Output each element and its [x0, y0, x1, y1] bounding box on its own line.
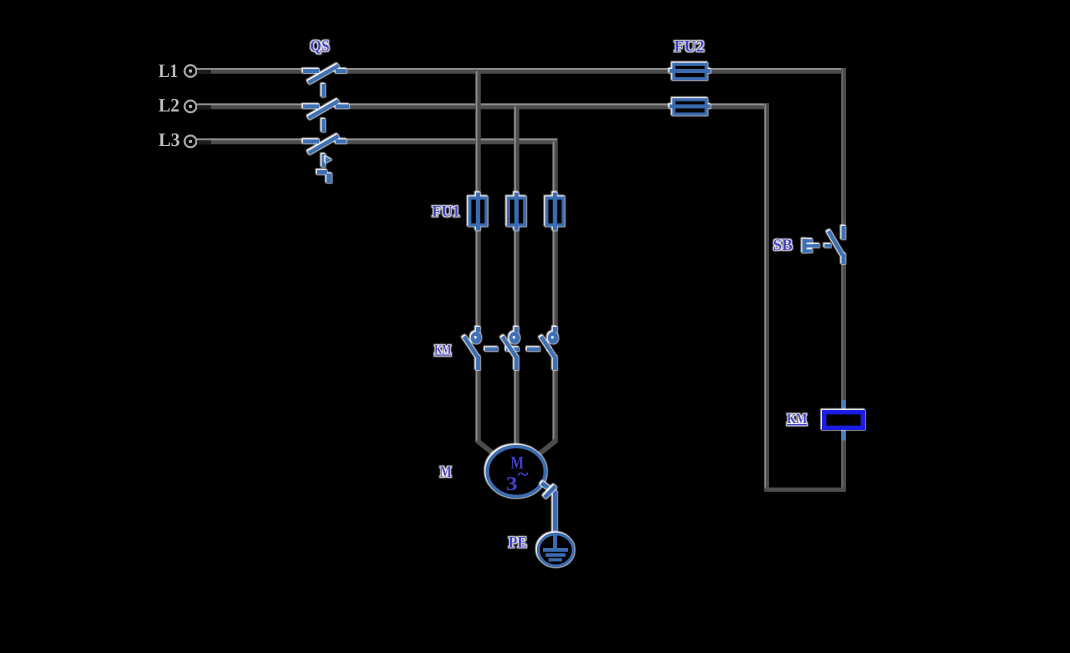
label SB [773, 237, 793, 254]
contactor KM linkage dashed line [485, 347, 551, 351]
motor M circle [487, 447, 545, 497]
wire control right vertical [842, 68, 843, 489]
switch QS pole 1 [303, 66, 347, 83]
svg-text:~: ~ [518, 464, 530, 484]
wire control bottom horizontal [764, 488, 846, 492]
svg-text:L2: L2 [159, 96, 180, 117]
label L1 [159, 61, 179, 82]
svg-text:QS: QS [310, 38, 330, 55]
motor M letter [511, 452, 524, 472]
label L3 [159, 130, 181, 151]
contactor KM contact 1 [464, 327, 482, 370]
svg-text:FU2: FU2 [674, 39, 705, 56]
wire shadow at terminal L3 [197, 140, 211, 144]
contactor KM contact 2 [503, 327, 521, 370]
label QS [310, 38, 330, 55]
wire L2 horizontal [197, 104, 769, 106]
label M [440, 464, 452, 481]
wire phase U vertical [477, 71, 502, 461]
ground PE symbol [538, 533, 573, 566]
label KM main contacts [435, 342, 452, 357]
switch QS linkage dashed line [322, 84, 326, 172]
svg-text:3: 3 [506, 474, 518, 495]
wire control left vertical [765, 104, 766, 490]
svg-text:SB: SB [773, 237, 793, 254]
fuse FU2-2 [670, 100, 711, 114]
svg-text:FU1: FU1 [432, 204, 460, 221]
contactor KM contact 3 gap [551, 329, 560, 369]
pushbutton SB gap [841, 240, 848, 254]
wire PE [542, 483, 556, 535]
svg-text:KM: KM [787, 412, 807, 427]
fuse FU1-2 [508, 193, 524, 231]
switch QS pole 1 gap [320, 68, 336, 74]
svg-text:KM: KM [435, 342, 452, 357]
switch QS pole 2 [303, 101, 349, 118]
label L2 [159, 96, 180, 117]
wire L1 horizontal [197, 69, 846, 71]
terminal L3 [185, 136, 197, 148]
wire L3 horizontal [197, 139, 558, 141]
PE terminal tick [545, 486, 556, 498]
terminal L1 [185, 65, 197, 77]
wire shadow at terminal L1 [197, 70, 211, 74]
switch QS pole 3 gap [320, 138, 336, 144]
fuse FU1-3 [547, 193, 563, 231]
wire shadow at terminal L2 [197, 105, 211, 109]
fuse FU2-1 [670, 64, 711, 78]
wire phase V vertical [515, 106, 516, 452]
svg-text:M: M [440, 464, 452, 481]
svg-text:L3: L3 [159, 130, 181, 151]
terminal L2 [185, 101, 197, 113]
switch QS handle hook [317, 170, 332, 183]
svg-text:PE: PE [509, 535, 528, 552]
fuse FU1-1 [470, 193, 486, 231]
wire phase W vertical [531, 141, 556, 460]
contactor KM contact 3 [541, 327, 558, 370]
label PE [509, 535, 528, 552]
coil KM [841, 400, 846, 441]
motor 3~ label [506, 464, 529, 495]
label KM coil [787, 412, 807, 427]
label FU2 [674, 39, 705, 56]
label FU1 [432, 204, 460, 221]
contactor KM contact 2 gap [512, 329, 521, 369]
switch QS handle arrow [326, 157, 332, 164]
pushbutton SB [805, 226, 844, 264]
switch QS pole 3 [303, 136, 347, 153]
svg-text:L1: L1 [159, 61, 179, 82]
switch QS pole 2 gap [320, 103, 336, 109]
contactor KM contact 1 gap [474, 329, 483, 369]
